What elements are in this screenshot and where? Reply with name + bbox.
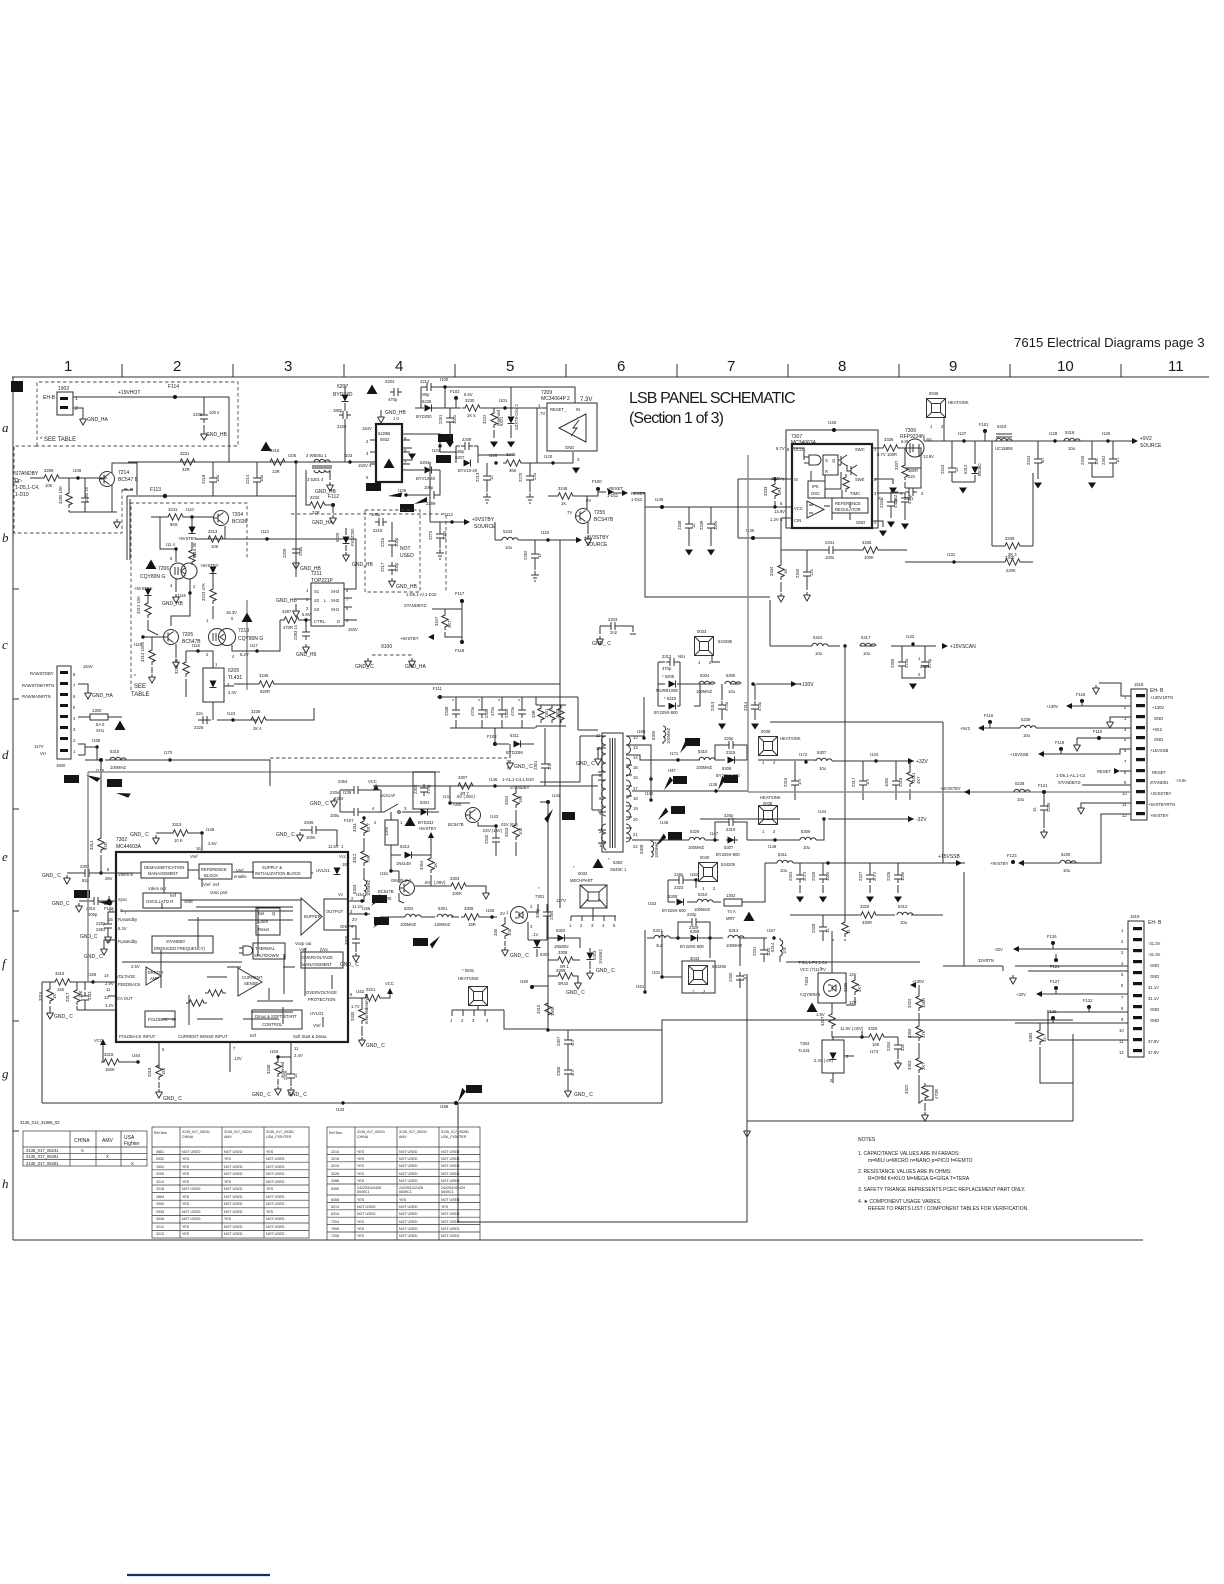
svg-text:13: 13 (633, 745, 638, 750)
svg-text:2270: 2270 (428, 530, 433, 540)
svg-text:GND_HA: GND_HA (87, 417, 109, 423)
capacitor 2214 (256, 462, 258, 496)
resistor 3311 (363, 818, 365, 820)
svg-text:S2: S2 (314, 598, 320, 603)
svg-text:534205: 534205 (721, 862, 736, 867)
svg-text:USA_FIGHTER: USA_FIGHTER (266, 1135, 292, 1139)
svg-text:100n: 100n (884, 777, 889, 787)
svg-text:1500: 1500 (56, 763, 66, 768)
svg-text:F112: F112 (328, 494, 339, 500)
svg-text:NOT USED: NOT USED (224, 1165, 243, 1169)
svg-text:YES: YES (182, 1180, 190, 1184)
optocoupler 7303 (818, 973, 846, 1003)
inductor 5307 (816, 758, 832, 761)
node I124 (231, 718, 234, 721)
svg-text:0R1: 0R1 (777, 487, 782, 495)
svg-text:GND_ C: GND_ C (276, 832, 295, 838)
svg-text:Iref: Iref (170, 893, 177, 898)
capacitor 2285 (1043, 792, 1045, 802)
long vertical feeds (770, 600, 943, 915)
svg-text:220p: 220p (724, 813, 734, 818)
supply init box (253, 862, 311, 878)
svg-text:S3: S3 (314, 607, 320, 612)
svg-text:2328: 2328 (811, 923, 816, 933)
svg-text:FOLDBACK INPUT: FOLDBACK INPUT (119, 1034, 156, 1039)
svg-text:F108: F108 (487, 734, 497, 739)
notes block (858, 1137, 1029, 1212)
svg-text:*: * (573, 865, 575, 870)
svg-text:.1V: .1V (532, 932, 538, 937)
svg-text:3330: 3330 (350, 1011, 355, 1021)
capacitor 2300 (501, 697, 503, 728)
node I128 (1053, 439, 1056, 442)
svg-text:AMV: AMV (399, 1135, 407, 1139)
svg-text:F107: F107 (344, 818, 354, 823)
dashed shield run (270, 758, 508, 772)
svg-text:2364: 2364 (338, 779, 348, 784)
svg-text:11.5V: 11.5V (328, 844, 339, 849)
svg-text:1m: 1m (797, 779, 802, 785)
svg-text:YES: YES (182, 1225, 190, 1229)
svg-text:8.7V: 8.7V (776, 446, 785, 451)
svg-text:0851: 0851 (156, 1150, 164, 1154)
svg-text:W7: W7 (674, 808, 681, 813)
svg-text:NOT USED: NOT USED (441, 1179, 460, 1183)
svg-text:I108: I108 (73, 468, 82, 473)
svg-text:100MHZ: 100MHZ (696, 689, 712, 694)
svg-text:3228: 3228 (331, 1172, 339, 1176)
inductor 5308 (650, 840, 652, 841)
+5VSTBY arrow up (428, 832, 434, 838)
pin4 F124 (1054, 958, 1058, 962)
resistor 3312 (361, 848, 367, 866)
svg-text:5329: 5329 (690, 829, 700, 834)
pin8 F122 (1087, 1005, 1091, 1009)
svg-text:NOT: NOT (400, 546, 411, 552)
svg-text:Soft Start & Dmax: Soft Start & Dmax (293, 1034, 327, 1039)
svg-text:c: c (2, 637, 8, 652)
svg-text:TIMC: TIMC (850, 491, 860, 496)
connector 1500 (57, 666, 71, 759)
svg-text:3303: 3303 (450, 876, 460, 881)
svg-text:3219: 3219 (331, 1164, 339, 1168)
svg-text:600p: 600p (88, 912, 98, 917)
svg-text:5314: 5314 (770, 942, 775, 952)
flag W21 + node I104 (438, 434, 453, 442)
capacitor 2324 (799, 863, 801, 893)
svg-text:I160: I160 (520, 979, 529, 984)
svg-text:W6: W6 (671, 834, 678, 839)
svg-text:7: 7 (73, 683, 76, 688)
svg-text:2: 2 (173, 358, 181, 375)
svg-text:YES: YES (357, 1220, 365, 1224)
svg-text:YES: YES (357, 1227, 365, 1231)
svg-text:2326: 2326 (886, 871, 891, 881)
node I103 (348, 460, 351, 463)
svg-text:470R: 470R (934, 1089, 939, 1099)
svg-text:NOT USED: NOT USED (441, 1212, 460, 1216)
svg-text:5: 5 (506, 358, 514, 375)
wire loop right (458, 1020, 1073, 1222)
svg-text:YES: YES (182, 1202, 190, 1206)
svg-text:R=OHM K=KILO M=MEGA G=G: R=OHM K=KILO M=MEGA G=GIGA T=TERA (868, 1176, 970, 1182)
svg-text:127V: 127V (556, 898, 566, 903)
svg-text:2.6V: 2.6V (208, 841, 217, 846)
svg-text:3238: 3238 (251, 709, 261, 714)
svg-text:117V: 117V (34, 744, 44, 749)
svg-text:2292: 2292 (523, 550, 528, 560)
svg-text:HEATSINK: HEATSINK (780, 736, 801, 741)
primary tap loops (540, 736, 602, 810)
svg-text:REGULATOR: REGULATOR (835, 507, 861, 512)
svg-text:+5VSTBY: +5VSTBY (134, 586, 153, 591)
svg-text:I120: I120 (544, 454, 553, 459)
svg-text:I101: I101 (652, 970, 661, 975)
inductor 5319 UC15806 (996, 438, 1012, 441)
svg-text:130MHZ: 130MHZ (434, 922, 450, 927)
svg-text:GND: GND (340, 924, 349, 929)
svg-text:10K: 10K (211, 544, 219, 549)
svg-text:3246: 3246 (558, 486, 568, 491)
resistors 3301 3302 33R (536, 697, 566, 728)
svg-text:2V: 2V (352, 917, 357, 922)
svg-text:3310: 3310 (536, 1004, 541, 1014)
svg-text:10u: 10u (900, 920, 908, 925)
SR latch box (823, 455, 838, 475)
svg-text:1: 1 (918, 656, 921, 661)
svg-text:1-D11: 1-D11 (631, 497, 643, 502)
svg-text:7206: 7206 (158, 566, 169, 572)
svg-text:+19VHOT: +19VHOT (118, 390, 140, 396)
svg-text:BY229X-600: BY229X-600 (680, 944, 704, 949)
svg-text:YES: YES (266, 1150, 274, 1154)
diode 6309 (691, 935, 698, 942)
node I106 (494, 461, 497, 464)
flag R8 (562, 812, 575, 820)
svg-text:.7V: .7V (566, 510, 572, 515)
svg-text:S1: S1 (314, 589, 320, 594)
svg-text:10u: 10u (1068, 446, 1076, 451)
small gate (239, 946, 253, 955)
svg-text:2: 2 (351, 896, 354, 901)
svg-text:GND_HB: GND_HB (206, 432, 228, 438)
svg-text:GND_H9: GND_H9 (296, 652, 317, 658)
svg-text:NOT USED: NOT USED (441, 1157, 460, 1161)
svg-text:SH3: SH3 (331, 589, 340, 594)
svg-text:NOT USED: NOT USED (399, 1220, 418, 1224)
svg-text:I148: I148 (768, 844, 777, 849)
svg-text:NOT USED: NOT USED (224, 1232, 243, 1236)
svg-text:2n2: 2n2 (610, 630, 618, 635)
svg-text:5313: 5313 (729, 928, 739, 933)
IPK OSC box (808, 481, 825, 498)
svg-text:GND_ C: GND_ C (54, 1014, 73, 1020)
svg-text:Vovp out: Vovp out (295, 941, 312, 946)
optocoupler 7213 (209, 629, 236, 646)
svg-text:10u: 10u (728, 689, 736, 694)
+3V3STBY source 5234 (495, 539, 578, 541)
svg-text:GND_HB: GND_HB (276, 598, 298, 604)
svg-text:6201: 6201 (499, 416, 504, 426)
dashed NOT USED box (365, 510, 420, 592)
svg-text:9: 9 (949, 358, 957, 375)
svg-text:5308: 5308 (639, 844, 644, 854)
svg-text:1N4148: 1N4148 (396, 861, 411, 866)
svg-text:MURB100E: MURB100E (656, 688, 678, 693)
svg-text:5: 5 (73, 705, 76, 710)
svg-text:E/A OUT: E/A OUT (116, 996, 133, 1001)
svg-text:TOP221P: TOP221P (311, 578, 334, 584)
svg-text:1K: 1K (783, 569, 788, 574)
svg-text:1s: 1s (1032, 808, 1037, 812)
svg-text:2345: 2345 (1080, 455, 1085, 465)
svg-text:9K8: 9K8 (170, 522, 178, 527)
svg-text:1: 1 (1121, 928, 1124, 933)
svg-text:9: 9 (1121, 1017, 1124, 1022)
svg-text:I173: I173 (870, 1049, 879, 1054)
svg-text:3316: 3316 (38, 991, 43, 1001)
svg-text:2K 4: 2K 4 (253, 726, 262, 731)
svg-text:Ref Des: Ref Des (154, 1131, 167, 1135)
overvoltage management box (301, 952, 343, 968)
svg-text:2352: 2352 (1101, 455, 1106, 465)
svg-text:22: 22 (633, 844, 638, 849)
svg-text:2: 2 (206, 652, 209, 657)
svg-text:+3V3STBY: +3V3STBY (584, 535, 610, 541)
resistor 3231 (177, 459, 198, 465)
capacitor 2226 row (198, 712, 258, 720)
svg-text:7615 Electrical Diagrams page: 7615 Electrical Diagrams page 3 (1014, 335, 1205, 350)
pin7 wire (229, 1042, 231, 1072)
svg-text:100n: 100n (900, 871, 905, 881)
svg-text:8: 8 (838, 358, 846, 375)
svg-text:+32V: +32V (916, 759, 928, 765)
svg-text:NOTES: NOTES (858, 1137, 876, 1143)
svg-text:44.7: 44.7 (1042, 1033, 1047, 1042)
svg-text:NOT USED: NOT USED (224, 1210, 243, 1214)
svg-text:2334: 2334 (886, 1041, 891, 1051)
svg-text:7300: 7300 (382, 896, 392, 901)
svg-text:1s: 1s (293, 1074, 298, 1078)
set latch reset box (256, 908, 280, 935)
inductor 5315 (110, 757, 126, 760)
svg-text:+5VSTBY: +5VSTBY (178, 536, 197, 541)
svg-text:+3V3STBY: +3V3STBY (940, 786, 961, 791)
svg-text:GND_ C: GND_ C (514, 764, 533, 770)
svg-text:GND: GND (1150, 1018, 1159, 1023)
svg-text:2299: 2299 (426, 501, 436, 506)
svg-text:MECHPART: MECHPART (570, 878, 594, 883)
opamp triangle (807, 501, 824, 518)
svg-text:3318: 3318 (104, 1052, 114, 1057)
wire 15VSSB drop (963, 872, 965, 966)
svg-text:CHINA: CHINA (74, 1138, 90, 1144)
capacitor 2317 (862, 761, 864, 800)
svg-text:2: 2 (580, 923, 583, 928)
svg-text:3218 3K: 3218 3K (174, 658, 179, 674)
svg-text:3306: 3306 (464, 906, 474, 911)
node I117 (232, 620, 280, 651)
svg-text:2351: 2351 (904, 496, 914, 501)
svg-text:Vcc: Vcc (339, 854, 346, 859)
svg-text:10K: 10K (518, 827, 523, 835)
capacitor 2325 (822, 863, 824, 893)
svg-text:NOT USED: NOT USED (266, 1232, 285, 1236)
node I146 pin16 (200, 831, 203, 834)
svg-text:3230: 3230 (465, 398, 475, 403)
svg-text:6549C1: 6549C1 (357, 1190, 370, 1194)
svg-text:15R: 15R (468, 922, 476, 927)
svg-text:AMV: AMV (224, 1135, 232, 1139)
flag W2 (436, 455, 451, 463)
capacitor 470u (521, 697, 523, 728)
resistor 3232 (306, 470, 307, 505)
wire collector to F113 (69, 463, 137, 512)
node I147 (713, 838, 716, 841)
pin11/12 wires (1048, 1012, 1128, 1040)
svg-text:GND: GND (1154, 716, 1163, 721)
svg-text:36K: 36K (509, 468, 517, 473)
svg-text:2: 2 (1121, 939, 1124, 944)
svg-text:NOT USED: NOT USED (224, 1150, 243, 1154)
svg-text:1: 1 (702, 886, 705, 891)
svg-text:1902: 1902 (58, 386, 69, 392)
svg-text:2: 2 (918, 672, 921, 677)
svg-text:NOT USED: NOT USED (266, 1217, 285, 1221)
svg-text:2270: 2270 (518, 472, 523, 482)
svg-text:3221: 3221 (366, 987, 376, 992)
svg-text:IN: IN (576, 407, 580, 412)
svg-text:3213: 3213 (208, 529, 218, 534)
svg-text:SH1: SH1 (331, 607, 340, 612)
node F106 (107, 899, 111, 903)
-32V rail (700, 818, 914, 820)
svg-text:12V: 12V (849, 1000, 857, 1005)
svg-text:3324: 3324 (907, 998, 912, 1008)
svg-text:6302: 6302 (556, 928, 566, 933)
heatsink 0033 (695, 637, 714, 656)
node I141 (450, 802, 470, 804)
GND_HA pin7 (78, 684, 88, 690)
svg-text:3u3: 3u3 (656, 943, 664, 948)
svg-text:470p: 470p (388, 397, 398, 402)
diode 6220 (345, 528, 347, 535)
pin3 out (348, 913, 370, 915)
transformer 5360 primary winding (602, 736, 607, 772)
node F102 (454, 396, 458, 400)
svg-text:F127: F127 (1050, 979, 1060, 984)
capacitor 2946 (300, 830, 337, 846)
svg-text:15: 15 (633, 765, 638, 770)
svg-text:YES: YES (182, 1232, 190, 1236)
pin4 gnd (348, 926, 356, 936)
node I142 + vertical drop (546, 800, 550, 804)
svg-text:+130V: +130V (1046, 704, 1058, 709)
capacitor 2270b (439, 522, 441, 530)
svg-text:153V: 153V (348, 627, 358, 632)
svg-text:3354: 3354 (419, 860, 424, 870)
svg-text:*: * (452, 699, 454, 705)
svg-text:4: 4 (395, 358, 403, 375)
svg-text:470u: 470u (490, 706, 495, 716)
svg-text:GND_ C: GND_ C (566, 990, 585, 996)
svg-text:470u: 470u (510, 706, 515, 716)
flag W1N (413, 938, 428, 946)
svg-text:3135_017_05281: 3135_017_05281 (266, 1130, 294, 1134)
svg-text:GND_ C: GND_ C (340, 962, 359, 968)
svg-text:I152: I152 (690, 872, 699, 877)
svg-text:2204: 2204 (385, 379, 395, 384)
svg-text:Q: Q (272, 911, 276, 916)
svg-text:*: * (608, 857, 610, 862)
ground 7205 emitter (175, 644, 177, 658)
AND gate U7307a (804, 455, 821, 465)
capacitor 2334 (897, 1037, 899, 1041)
svg-text:2214: 2214 (245, 474, 250, 484)
ground pin3 7209 (572, 452, 574, 463)
capacitor 2215 (375, 518, 387, 526)
svg-text:1K: 1K (561, 501, 566, 506)
wire bus y495 (165, 495, 296, 497)
inductor 5303 (364, 880, 367, 896)
node I156 (490, 915, 493, 918)
svg-text:OVERVOLTAGE: OVERVOLTAGE (306, 990, 337, 995)
svg-text:0R33: 0R33 (558, 981, 569, 986)
svg-text:I104: I104 (432, 448, 441, 453)
svg-text:150K: 150K (105, 1067, 115, 1072)
svg-text:4. ★ COMPONENT USAGE VARIES.: 4. ★ COMPONENT USAGE VARIES. (858, 1199, 941, 1205)
+5VSTBY arrow (191, 517, 193, 527)
svg-text:.7V: .7V (539, 411, 545, 416)
I149 loop wire (645, 507, 770, 597)
pin4 +5V2 (980, 727, 1131, 729)
svg-text:3: 3 (404, 806, 407, 811)
svg-text:2226: 2226 (194, 725, 204, 730)
primary feed from cap bank (545, 730, 598, 786)
svg-text:NOT USED: NOT USED (441, 1227, 460, 1231)
svg-text:REFER TO PARTS LIST / COMPONEN: REFER TO PARTS LIST / COMPONENT TABLES F… (868, 1206, 1029, 1212)
fuse 1302 (724, 899, 742, 906)
svg-text:6.2V: 6.2V (240, 652, 249, 657)
svg-text:4: 4 (73, 716, 76, 721)
table T1 (23, 1131, 147, 1166)
svg-text:2313: 2313 (710, 701, 715, 711)
svg-text:m=MILI u=MICRO n=NANO: m=MILI u=MICRO n=NANO p=PICO f=FEMTO (868, 1158, 973, 1164)
svg-text:1: 1 (64, 358, 72, 375)
svg-text:-32V: -32V (994, 947, 1003, 952)
dashed mid box (291, 514, 446, 593)
svg-text:7: 7 (233, 1046, 236, 1051)
+9VSTBY source (430, 521, 466, 523)
svg-text:15K: 15K (57, 987, 65, 992)
node I109 (404, 493, 407, 496)
svg-text:+130V: +130V (1152, 705, 1164, 710)
svg-text:5213: 5213 (331, 1205, 339, 1209)
svg-text:2935: 2935 (156, 1210, 164, 1214)
svg-text:EH- B: EH- B (1150, 688, 1164, 694)
svg-text:I155: I155 (362, 906, 371, 911)
svg-text:F123: F123 (1007, 853, 1017, 858)
svg-text:h: h (2, 1176, 9, 1191)
capacitor 2294 (84, 478, 86, 512)
node I110 (190, 515, 193, 518)
+15VSSB rail (765, 862, 965, 864)
svg-text:Dmax & SOFT-START: Dmax & SOFT-START (255, 1014, 297, 1019)
node I135 (85, 759, 189, 761)
svg-text:SOURCE: SOURCE (586, 542, 608, 548)
svg-text:10: 10 (1057, 358, 1074, 375)
svg-text:4n7: 4n7 (570, 1038, 575, 1046)
